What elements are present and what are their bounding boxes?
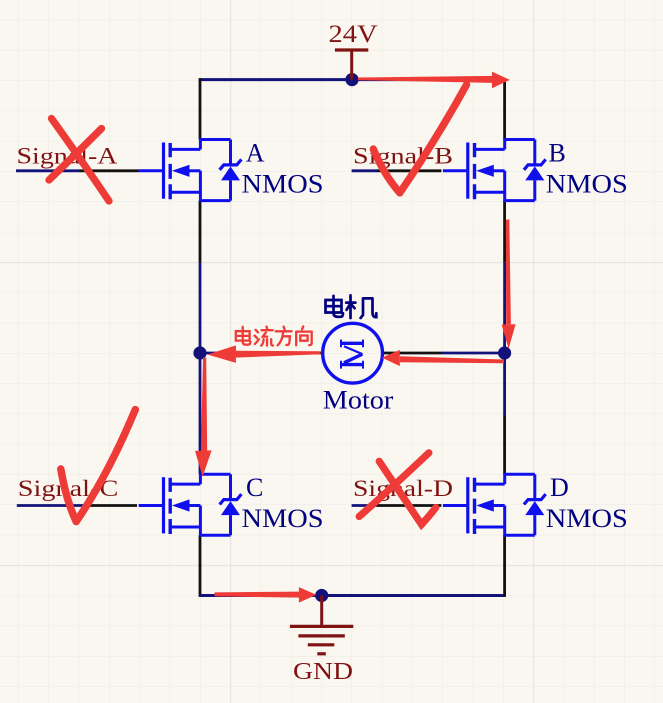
node GND junction	[315, 589, 328, 602]
wire Signal-D (black)	[377, 504, 441, 507]
svg-text:NMOS: NMOS	[546, 169, 628, 198]
wire Signal-D (navy)	[352, 504, 377, 507]
svg-text:NMOS: NMOS	[242, 169, 324, 198]
annotation check over Signal-B	[373, 85, 466, 193]
wire Signal-A (black)	[80, 169, 139, 172]
annotation arrow motor to left node	[207, 345, 320, 363]
wire motor to right node (navy)	[441, 352, 505, 355]
wire Signal-A (navy)	[16, 169, 80, 172]
transistor D	[443, 474, 546, 535]
annotation red text current-direction (CJK)	[236, 326, 312, 345]
motor M circle	[323, 323, 383, 383]
wire Signal-B (navy)	[352, 169, 377, 172]
svg-text:A: A	[246, 139, 265, 168]
transistor A	[139, 140, 242, 201]
svg-text:D: D	[550, 473, 569, 502]
transistor C	[139, 474, 242, 535]
transistor B	[443, 140, 546, 201]
wire B source to right node (navy)	[503, 263, 506, 353]
node left motor junction	[193, 346, 206, 359]
wire right drop from rail to B drain	[503, 78, 506, 139]
wire A source down (black)	[199, 201, 202, 263]
svg-text:Motor: Motor	[323, 385, 394, 414]
svg-text:NMOS: NMOS	[242, 504, 324, 533]
wire B source down (black)	[503, 201, 506, 263]
wire motor to right node (black)	[383, 352, 441, 355]
node 24V junction	[345, 73, 358, 86]
wire D source to bottom corner	[503, 535, 506, 597]
wire left node to motor (black)	[264, 352, 321, 355]
wire right node down (navy)	[503, 353, 506, 416]
wire left node to C drain	[199, 353, 202, 474]
node right motor junction	[498, 346, 511, 359]
svg-text:NMOS: NMOS	[546, 504, 628, 533]
svg-text:B: B	[549, 139, 566, 168]
wire A source down to left node (navy)	[199, 263, 202, 353]
annotation check over Signal-C	[61, 410, 136, 522]
power 24V	[329, 19, 379, 80]
svg-text:24V: 24V	[329, 19, 379, 48]
ground	[290, 596, 353, 685]
wire bottom rail	[200, 594, 505, 597]
wire top rail	[200, 78, 505, 81]
wire Signal-B (black)	[377, 169, 441, 172]
wire C source to bottom corner	[199, 535, 202, 597]
annotation X over Signal-A	[49, 119, 109, 202]
svg-text:Signal-B: Signal-B	[353, 143, 453, 168]
wire Signal-C (black)	[84, 504, 137, 507]
wire Signal-C (navy)	[17, 504, 84, 507]
wire left drop from rail to A drain	[199, 78, 202, 139]
motor label CJK dianji (electric machine)	[326, 295, 377, 318]
annotation arrow left node down to C	[195, 358, 212, 477]
annotation arrow down right side	[502, 219, 516, 348]
annotation arrow bottom rail to GND node	[215, 587, 317, 603]
annotation arrow along top rail	[358, 72, 510, 89]
annotation arrow right node to motor	[382, 350, 504, 366]
svg-text:C: C	[246, 473, 263, 502]
svg-text:GND: GND	[293, 659, 353, 685]
wire left node to motor (navy)	[200, 352, 264, 355]
wire right node to D drain (black)	[503, 416, 506, 474]
annotation X over Signal-D	[359, 453, 436, 525]
